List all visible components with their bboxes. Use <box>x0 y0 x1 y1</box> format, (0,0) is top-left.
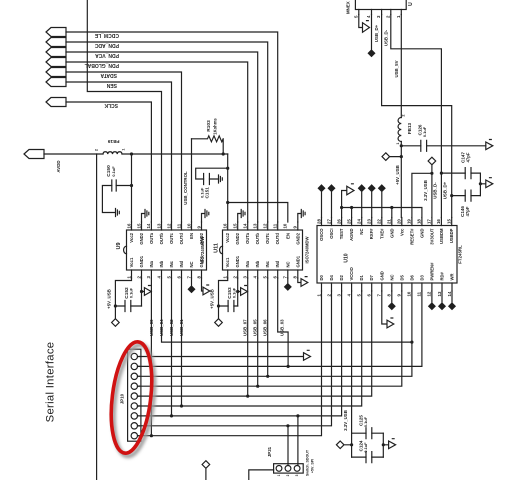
flag CDCM_LE <box>46 28 66 37</box>
svg-text:D1: D1 <box>359 274 364 280</box>
junction C153 <box>217 304 220 307</box>
svg-text:19: 19 <box>407 219 412 224</box>
svg-text:USB_07: USB_07 <box>242 319 247 336</box>
svg-text:24: 24 <box>357 219 362 224</box>
wire USB_05 <box>257 278 259 386</box>
svg-text:Vcc2: Vcc2 <box>225 232 230 242</box>
svg-text:INc: INc <box>169 260 174 267</box>
U11 top pin numbers <box>223 223 298 228</box>
svg-text:JP31: JP31 <box>267 446 272 457</box>
svg-text:AGND: AGND <box>349 229 354 241</box>
svg-text:OUTd: OUTd <box>179 233 184 245</box>
wire SEN <box>66 82 172 222</box>
junction <box>296 414 299 417</box>
net labels USB_0x left group <box>149 319 285 336</box>
svg-text:AVDD: AVDD <box>56 160 61 172</box>
junction <box>170 414 173 417</box>
svg-text:12: 12 <box>427 291 432 296</box>
svg-text:MNEX: MNEX <box>346 1 351 14</box>
connector JP10 body <box>128 349 141 441</box>
wire USB_01 <box>181 278 183 406</box>
svg-text:0.1uF: 0.1uF <box>111 166 116 177</box>
port flag U10 pin26 <box>342 186 354 217</box>
junction EN branch <box>226 201 229 204</box>
capacitor C125 <box>352 432 384 434</box>
svg-text:PDN_GLOBAL: PDN_GLOBAL <box>85 62 119 68</box>
no-connect U10 pin12 <box>429 291 435 309</box>
svg-text:OUTc: OUTc <box>265 232 270 244</box>
svg-text:JP10: JP10 <box>120 393 125 404</box>
svg-text:U9: U9 <box>116 242 122 249</box>
svg-text:16: 16 <box>223 223 228 228</box>
junction <box>382 443 385 446</box>
capacitor C150 <box>102 186 131 213</box>
wire net from top edge <box>87 0 161 222</box>
svg-text:14: 14 <box>146 223 151 228</box>
junction <box>266 375 269 378</box>
svg-text:4: 4 <box>137 385 141 387</box>
svg-text:5: 5 <box>137 395 141 397</box>
svg-text:21: 21 <box>387 219 392 224</box>
junction <box>350 206 353 209</box>
svg-text:1: 1 <box>122 148 126 150</box>
svg-text:USB_5V: USB_5V <box>394 60 399 77</box>
svg-text:26: 26 <box>336 219 341 224</box>
junction <box>130 152 133 155</box>
svg-text:GND1: GND1 <box>139 255 144 267</box>
junction <box>287 365 290 368</box>
svg-text:USB_06: USB_06 <box>262 319 267 336</box>
svg-text:USB_CONTROL: USB_CONTROL <box>183 171 188 205</box>
U9 bottom pin numbers <box>126 276 201 279</box>
svg-text:GND2: GND2 <box>139 232 144 244</box>
svg-text:2: 2 <box>137 365 141 367</box>
svg-text:11: 11 <box>417 291 422 296</box>
svg-text:1: 1 <box>396 142 400 144</box>
svg-text:USB_05: USB_05 <box>252 319 257 336</box>
svg-text:R103: R103 <box>206 120 212 132</box>
wire JP10 row5 to U10 D7 <box>138 291 372 396</box>
svg-text:D0: D0 <box>319 274 324 280</box>
U9 top pin stubs 16-9 <box>132 222 202 230</box>
svg-text:OUTa: OUTa <box>245 232 250 244</box>
U9 top pin numbers <box>126 223 201 228</box>
op-amp U11 body (digital isolator) <box>223 230 303 270</box>
wire JP10 row1 to port arrow <box>138 353 311 361</box>
svg-text:3: 3 <box>295 474 299 476</box>
offpage diamond +5V_USB (U9) <box>112 319 120 327</box>
svg-text:USB_D-: USB_D- <box>384 29 389 46</box>
svg-text:2: 2 <box>402 114 406 116</box>
svg-text:EN: EN <box>189 233 194 239</box>
U9 top pin names <box>129 232 204 244</box>
USB connector pin numbers <box>353 15 401 18</box>
svg-text:OSCO: OSCO <box>319 228 324 241</box>
offpage diamond bottom net <box>202 461 210 480</box>
annotation red ellipse shadow <box>108 343 160 459</box>
ground U9 pin9 <box>202 210 209 223</box>
wire JP10 row9 to U10 D0 <box>138 291 322 436</box>
svg-text:C151: C151 <box>205 187 211 199</box>
capacitor C151 <box>196 168 228 179</box>
connector U1 USB body <box>355 0 406 10</box>
svg-text:28: 28 <box>316 219 321 224</box>
svg-text:D4: D4 <box>329 274 334 280</box>
ferrite bead FB19 <box>103 152 122 154</box>
svg-text:INa: INa <box>149 260 154 267</box>
ground U9 pin15 <box>142 210 149 223</box>
svg-text:USBDP: USBDP <box>449 228 454 243</box>
svg-text:USB_D+: USB_D+ <box>443 181 448 199</box>
ground C150 <box>116 209 120 217</box>
junction <box>410 341 413 344</box>
wire JP31 pin2 riser <box>287 426 289 466</box>
svg-text:11: 11 <box>176 223 181 228</box>
svg-text:+5V_SPI: +5V_SPI <box>310 459 314 473</box>
svg-text:Vcc: Vcc <box>399 228 404 236</box>
svg-text:8: 8 <box>137 425 141 427</box>
svg-text:OSCI: OSCI <box>329 229 334 239</box>
junction <box>400 155 403 158</box>
JP31 pin numbers <box>277 474 299 476</box>
svg-text:USB_04: USB_04 <box>159 319 164 336</box>
svg-text:WR: WR <box>450 274 455 281</box>
svg-text:47pF: 47pF <box>465 206 470 216</box>
svg-text:D2: D2 <box>339 274 344 280</box>
svg-text:ISO7240MDW: ISO7240MDW <box>304 236 309 263</box>
svg-text:12: 12 <box>166 223 171 228</box>
svg-text:10: 10 <box>186 223 191 228</box>
svg-text:16: 16 <box>126 223 131 228</box>
svg-text:3V3OUT: 3V3OUT <box>429 228 434 245</box>
flag PDN_VCA <box>46 48 66 57</box>
svg-text:1: 1 <box>277 474 281 476</box>
wire USB_5V from pin1 <box>400 15 402 118</box>
svg-text:USB_01: USB_01 <box>179 319 184 336</box>
U11 bottom pin names <box>225 255 300 267</box>
svg-text:14: 14 <box>447 291 452 296</box>
svg-text:13: 13 <box>437 291 442 296</box>
svg-text:20: 20 <box>397 219 402 224</box>
svg-text:13: 13 <box>156 223 161 228</box>
ground bus U10 top <box>342 208 422 218</box>
no-connect U10 pin22 <box>379 185 385 218</box>
wire U11 GND1 pin2 <box>237 278 239 306</box>
wire JP10 row4 to U10 D5 <box>138 291 402 386</box>
svg-text:FB13: FB13 <box>407 122 412 134</box>
no-connect U10 pin23 <box>369 185 375 218</box>
svg-text:Vcc1: Vcc1 <box>225 257 230 267</box>
junction <box>246 395 249 398</box>
wire JP31 pin3 riser <box>297 416 299 466</box>
no-connect U9 pin7 <box>188 278 194 292</box>
svg-text:3.3V_USB: 3.3V_USB <box>423 180 428 201</box>
ground arrow U11 pin2 <box>238 288 248 296</box>
wire EN tie to U11 pin10 <box>228 203 288 223</box>
junction C150 <box>130 184 133 187</box>
wire U10 VCCIO riser 3.3V_USB <box>351 291 353 433</box>
svg-text:11: 11 <box>273 223 278 228</box>
U11 bottom pin numbers <box>223 276 298 279</box>
svg-text:23: 23 <box>367 219 372 224</box>
no-connect U10 pin14 <box>449 291 455 309</box>
capacitor C147 <box>441 172 480 174</box>
svg-text:RESET#: RESET# <box>409 228 414 245</box>
svg-text:1: 1 <box>137 355 141 357</box>
wire USB_07 <box>247 278 249 396</box>
svg-text:+5V_USB: +5V_USB <box>210 289 215 309</box>
svg-text:OUTb: OUTb <box>255 233 260 245</box>
svg-text:GND: GND <box>379 271 384 280</box>
capacitor C126 <box>401 145 486 147</box>
svg-text:Vcc2: Vcc2 <box>129 232 134 242</box>
arrow tick marks <box>149 21 492 439</box>
svg-text:47pF: 47pF <box>465 152 470 162</box>
svg-text:USB_02: USB_02 <box>169 319 174 336</box>
wire USB_06 <box>267 278 269 376</box>
offpage diamond +5V_USB <box>382 153 401 161</box>
U10 bottom pin numbers <box>316 291 452 296</box>
wire SDATA <box>66 72 182 222</box>
svg-text:3.3V_USB: 3.3V_USB <box>343 410 348 431</box>
capacitor C146 <box>452 195 481 197</box>
svg-text:SDATA: SDATA <box>100 72 117 78</box>
power flag AVDD <box>24 150 44 159</box>
junction C152 <box>114 304 117 307</box>
svg-text:15: 15 <box>447 219 452 224</box>
ferrite bead FB13 <box>398 118 401 142</box>
junction C151 branch <box>226 167 229 170</box>
svg-text:U: U <box>408 2 414 6</box>
USB pin stubs 5-1 <box>359 10 402 15</box>
svg-text:0.1uF: 0.1uF <box>422 126 427 137</box>
svg-text:15: 15 <box>233 223 238 228</box>
svg-text:D3: D3 <box>419 274 424 280</box>
svg-text:22: 22 <box>377 219 382 224</box>
capacitor C152 <box>115 305 141 307</box>
no-connect U10 pin13 <box>439 291 445 309</box>
svg-text:USBDM: USBDM <box>439 228 444 244</box>
svg-text:NC: NC <box>189 261 194 267</box>
svg-text:INd: INd <box>179 260 184 267</box>
wire PDN_VCA <box>66 52 258 222</box>
junction <box>286 424 289 427</box>
flag SCLK <box>46 98 66 107</box>
svg-text:TEST: TEST <box>339 228 344 239</box>
svg-text:OUTb: OUTb <box>159 233 164 245</box>
capacitor C124 <box>352 456 384 458</box>
svg-text:15: 15 <box>136 223 141 228</box>
wire U9 Vcc1 to +5V_USB <box>115 278 131 319</box>
capacitor C153 <box>219 305 238 307</box>
wire PDN_GLOBAL <box>66 62 248 222</box>
op-amp U9 body (digital isolator) <box>127 230 207 270</box>
svg-text:0.1uF: 0.1uF <box>363 442 368 453</box>
wire cap common rail <box>479 173 481 196</box>
JP10 pin numbers <box>137 355 141 436</box>
junction <box>256 385 259 388</box>
junction R103/AVDD <box>222 152 225 155</box>
flag PDN_GLOBAL <box>46 58 66 67</box>
wire USB_D- from pin2 <box>391 15 442 218</box>
port arrow C124/C125 net <box>383 441 395 449</box>
svg-text:OUTd: OUTd <box>275 233 280 245</box>
wire U10 pin21 to bus <box>391 208 393 218</box>
svg-text:14: 14 <box>243 223 248 228</box>
svg-text:FT245RL: FT245RL <box>458 245 463 264</box>
port arrow C126 net <box>486 142 493 150</box>
junction <box>390 206 393 209</box>
ground arrow U9 pin8 <box>202 278 210 295</box>
svg-text:RD#: RD# <box>440 271 445 280</box>
svg-text:EN: EN <box>285 233 290 239</box>
svg-text:PDN_ADC: PDN_ADC <box>94 42 119 48</box>
svg-text:D7: D7 <box>369 274 374 280</box>
ground arrow U9 pin2 <box>142 288 152 296</box>
svg-text:17: 17 <box>427 219 432 224</box>
svg-text:2: 2 <box>95 149 99 151</box>
no-connect U10 pin27 <box>328 185 334 218</box>
ground C151 <box>219 175 223 183</box>
U11 top pin names <box>225 232 300 244</box>
offpage diamond +5V_USB (U11) <box>215 319 223 327</box>
shield flag USB pin5 <box>359 15 370 33</box>
U10 top pin numbers <box>316 219 451 224</box>
svg-text:1Kohms: 1Kohms <box>213 118 218 135</box>
wire USB_D+ from pin3 <box>382 15 452 218</box>
svg-text:SEN: SEN <box>106 82 117 88</box>
svg-text:18: 18 <box>417 219 422 224</box>
svg-text:0.1uF: 0.1uF <box>232 287 237 298</box>
svg-text:GND2: GND2 <box>295 232 300 244</box>
svg-text:U10: U10 <box>344 253 350 262</box>
U10 bottom pin names <box>319 262 455 281</box>
U10 top pin stubs 28-15 <box>322 218 452 226</box>
svg-text:PDN_VCA: PDN_VCA <box>95 52 119 58</box>
offpage diamond 3.3V rail <box>336 441 351 449</box>
svg-text:TXE#: TXE# <box>379 228 384 239</box>
junction <box>479 182 482 185</box>
no-connect U10 pin24 <box>359 185 365 218</box>
port arrow C146/C147 net <box>480 180 492 188</box>
wire U11 Vcc1 to +5V_USB <box>219 278 228 319</box>
wire U9 Vcc2 riser <box>131 154 133 222</box>
svg-text:FB19: FB19 <box>107 138 119 144</box>
wire CDCM_LE <box>66 32 278 222</box>
svg-text:25: 25 <box>346 219 351 224</box>
svg-text:0.1uF: 0.1uF <box>363 416 368 427</box>
svg-text:NC: NC <box>389 274 394 280</box>
svg-text:GND1: GND1 <box>235 255 240 267</box>
transistor U10 body (FT245RL) <box>317 226 457 284</box>
junction <box>350 443 353 446</box>
wire USB_CONTROL riser to U9 EN <box>191 139 193 222</box>
U9 bottom pin names <box>129 255 204 267</box>
U10 bottom pin stubs 1-14 <box>322 283 453 291</box>
ground U11 pin9 <box>298 210 305 223</box>
svg-text:GND1: GND1 <box>199 255 204 267</box>
svg-text:+5V_USB: +5V_USB <box>107 289 112 309</box>
svg-text:D6: D6 <box>409 274 414 280</box>
svg-text:0.1uF: 0.1uF <box>199 187 204 198</box>
wire USB_00 <box>150 278 152 436</box>
svg-text:RXF#: RXF# <box>369 228 374 239</box>
junction <box>140 290 143 293</box>
wire JP10 row2 to U10 D3 <box>138 291 422 366</box>
connector JP31 body <box>274 464 304 473</box>
JP10 pin circles <box>131 353 137 359</box>
svg-text:U11: U11 <box>213 243 219 253</box>
wire USB_03 jog <box>278 278 288 366</box>
wire SCLK <box>66 102 151 222</box>
svg-text:GND: GND <box>419 229 424 238</box>
svg-text:OUTa: OUTa <box>149 232 154 244</box>
svg-text:USB_D-: USB_D- <box>433 182 438 199</box>
ground arrow U10 pin7 <box>382 291 394 328</box>
svg-text:D5: D5 <box>399 274 404 280</box>
svg-text:NC: NC <box>285 261 290 267</box>
wire C124/C125 frame <box>352 433 384 457</box>
svg-text:PWREN#: PWREN# <box>429 262 434 281</box>
wire USB_04 jog to U10 D6 column <box>162 278 412 342</box>
wire PDN_ADC <box>66 42 268 222</box>
svg-text:13: 13 <box>253 223 258 228</box>
offpage diamond 3.3V_USB <box>428 157 436 217</box>
svg-text:VCCIO: VCCIO <box>349 266 354 280</box>
svg-text:10: 10 <box>283 223 288 228</box>
flag SEN <box>46 78 66 87</box>
annotation red ellipse <box>106 340 158 456</box>
junction RESET tie <box>430 172 433 175</box>
svg-text:27: 27 <box>326 219 331 224</box>
no-connect U10 pin8 <box>389 291 395 309</box>
svg-text:0.1uF: 0.1uF <box>129 287 134 298</box>
svg-text:SCLK: SCLK <box>104 102 118 108</box>
wire U9 GND1 pin2 <box>141 278 143 306</box>
svg-text:Switch_SDOUT: Switch_SDOUT <box>306 449 310 476</box>
svg-text:INb: INb <box>255 260 260 267</box>
wire U10 RESET pin19 to 3V3 <box>412 173 432 217</box>
svg-text:INd: INd <box>275 260 280 267</box>
svg-text:OUTc: OUTc <box>169 232 174 244</box>
svg-text:Serial Interface: Serial Interface <box>45 342 57 423</box>
flag PDN_ADC <box>46 38 66 47</box>
svg-text:3: 3 <box>137 375 141 377</box>
no-connect U11 pin7 <box>285 278 291 290</box>
svg-text:GND: GND <box>389 229 394 238</box>
svg-text:USB_03: USB_03 <box>279 319 284 336</box>
svg-text:10: 10 <box>407 291 412 296</box>
svg-text:16: 16 <box>436 219 441 224</box>
JP31 pin circles <box>276 466 282 472</box>
svg-text:12: 12 <box>263 223 268 228</box>
svg-text:USB_00: USB_00 <box>149 319 154 336</box>
resistor R103 <box>192 136 224 154</box>
flag SDATA <box>46 68 66 77</box>
svg-text:7: 7 <box>137 415 141 417</box>
junction <box>236 290 239 293</box>
wire AVDD <box>44 153 103 155</box>
ground arrow U11 pin8 <box>298 278 308 286</box>
svg-text:CDCM_LE: CDCM_LE <box>94 32 119 38</box>
wire JP10 row8 to U10 D4 <box>138 291 332 426</box>
svg-text:GND2: GND2 <box>199 232 204 244</box>
U11 bottom pin stubs 1-8 <box>228 270 298 278</box>
wire FB13 to U10 Vcc pin20 <box>400 142 402 218</box>
junction <box>340 206 343 209</box>
no-connect U10 pin28 <box>318 185 324 218</box>
wire JP10 row7 to U10 D2 <box>138 291 342 416</box>
